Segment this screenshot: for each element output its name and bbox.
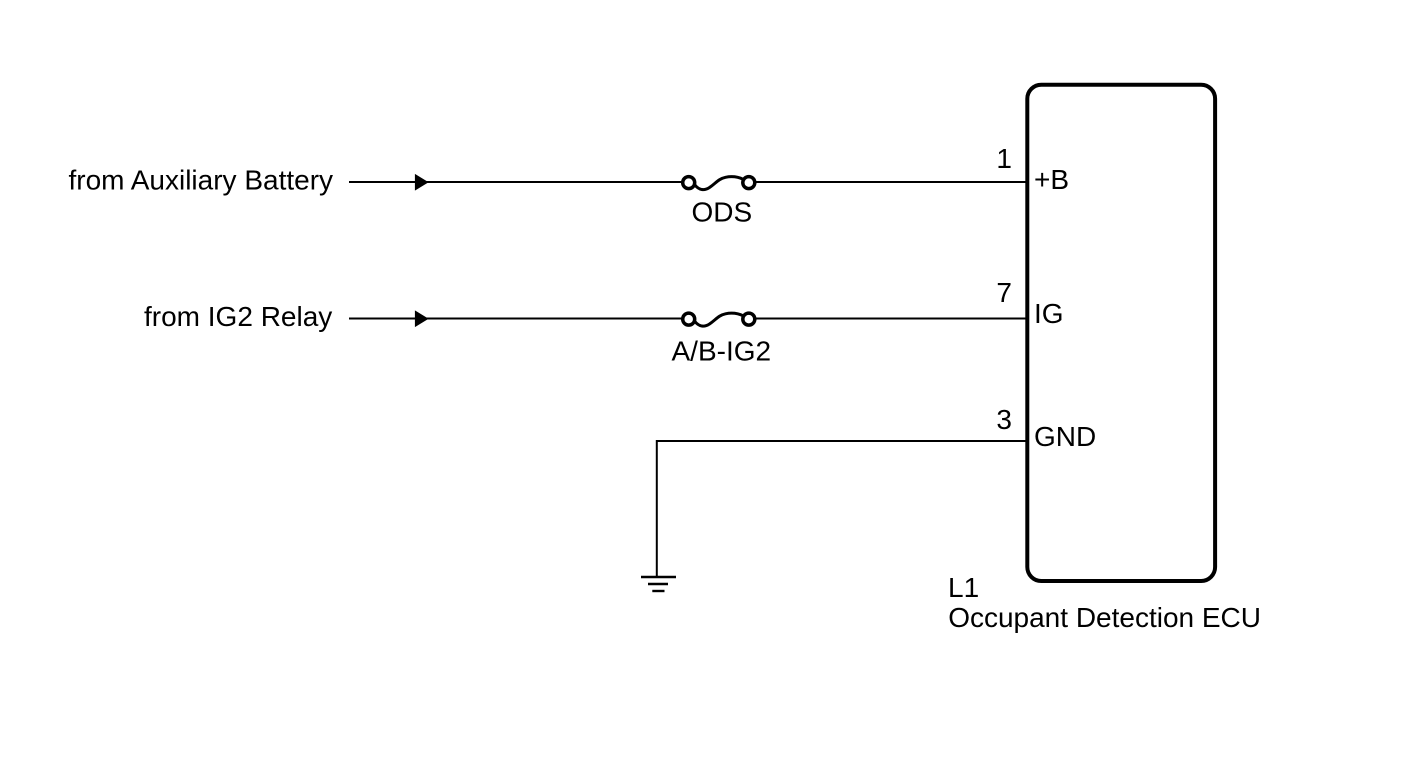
arrowhead: flow direction on +B wire [415, 174, 429, 191]
svg-text:GND: GND [1034, 421, 1096, 452]
svg-text:ODS: ODS [692, 197, 753, 228]
wire: ground drop (vertical) [656, 440, 658, 577]
wire: Auxiliary Battery feed to fuse ODS [349, 181, 682, 183]
ground symbol [641, 577, 676, 591]
svg-text:IG: IG [1034, 298, 1064, 329]
wire: ground to ECU pin 3 (horizontal) [657, 440, 1027, 442]
wire: fuse A/B-IG2 to ECU pin 7 [755, 318, 1027, 320]
svg-text:from Auxiliary Battery: from Auxiliary Battery [69, 165, 334, 196]
svg-text:1: 1 [996, 143, 1012, 174]
wire: IG2 Relay feed to fuse A/B-IG2 [349, 318, 682, 320]
svg-text:from IG2 Relay: from IG2 Relay [144, 301, 332, 332]
ECU box L1 (Occupant Detection ECU) [1027, 85, 1215, 581]
wire: fuse ODS to ECU pin 1 [755, 181, 1027, 183]
fuse A/B-IG2 element (S-curve) [695, 313, 744, 326]
fuse ODS left terminal circle [683, 177, 695, 189]
arrowhead: flow direction on IG wire [415, 310, 429, 327]
fuse ODS element (S-curve) [695, 177, 744, 190]
fuse A/B-IG2 left terminal circle [683, 313, 695, 325]
svg-text:+B: +B [1034, 164, 1069, 195]
fuse ODS right terminal circle [743, 177, 755, 189]
svg-text:Occupant Detection ECU: Occupant Detection ECU [948, 602, 1261, 633]
svg-text:A/B-IG2: A/B-IG2 [672, 335, 772, 366]
fuse A/B-IG2 right terminal circle [743, 313, 755, 325]
svg-text:L1: L1 [948, 572, 979, 603]
svg-text:3: 3 [996, 404, 1012, 435]
svg-text:7: 7 [996, 277, 1012, 308]
